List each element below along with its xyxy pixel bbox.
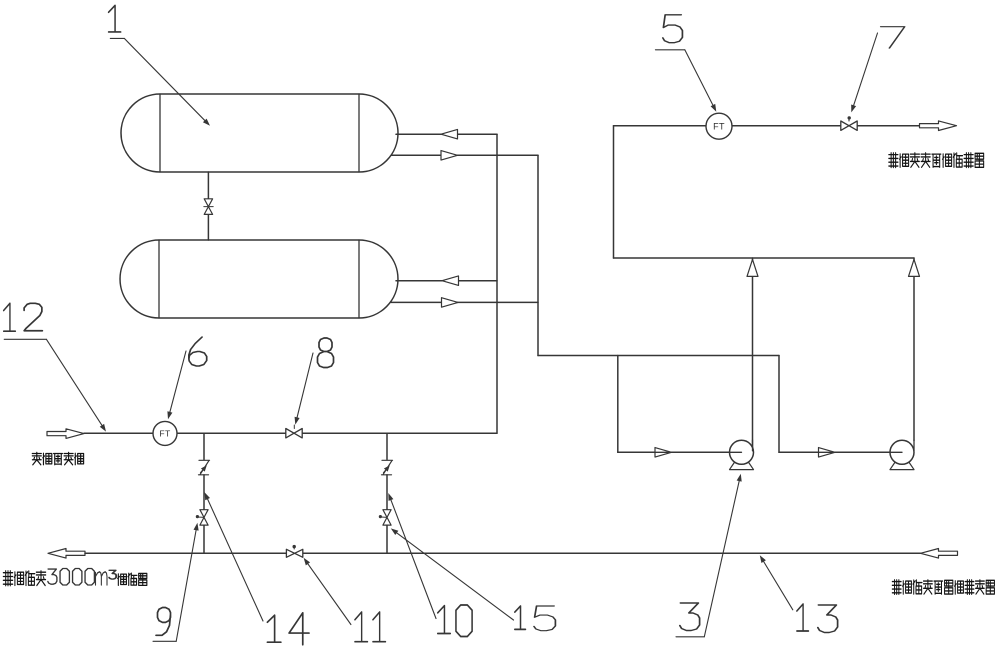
svg-text:FT: FT <box>713 121 725 131</box>
svg-text:FT: FT <box>159 429 171 439</box>
